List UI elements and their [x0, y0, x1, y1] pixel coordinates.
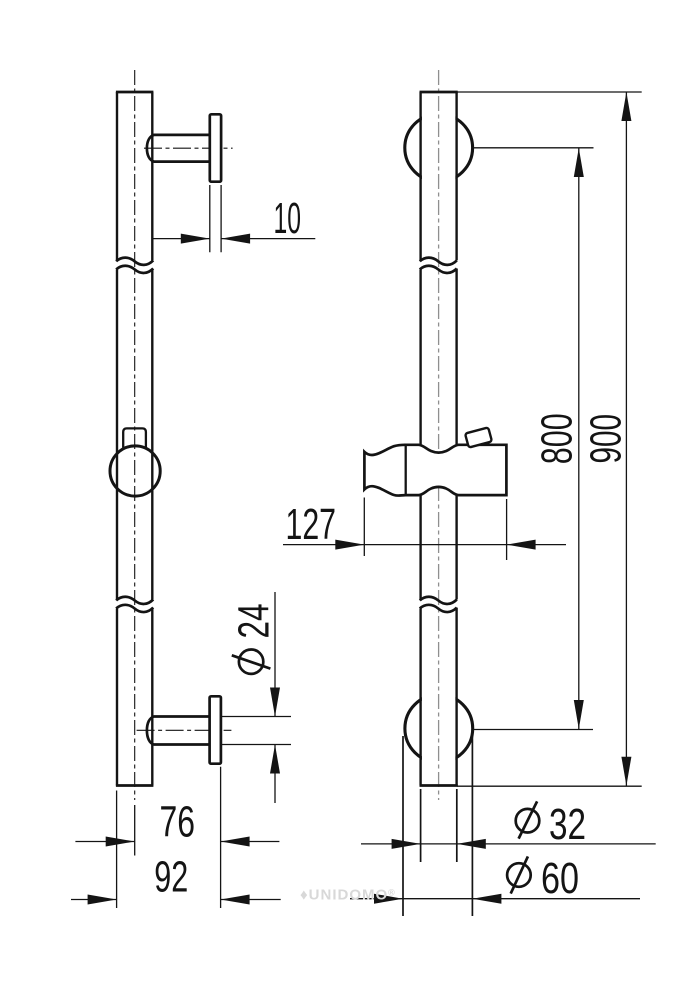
- svg-text:127: 127: [286, 500, 337, 549]
- svg-text:900: 900: [582, 414, 631, 464]
- svg-text:♦UNIDOMO®: ♦UNIDOMO®: [300, 887, 396, 904]
- svg-text:800: 800: [533, 413, 582, 464]
- svg-text:60: 60: [541, 854, 579, 903]
- svg-text:32: 32: [549, 800, 586, 849]
- svg-text:76: 76: [160, 797, 196, 846]
- svg-text:10: 10: [274, 194, 302, 243]
- svg-text:92: 92: [154, 852, 188, 901]
- svg-text:24: 24: [230, 604, 279, 639]
